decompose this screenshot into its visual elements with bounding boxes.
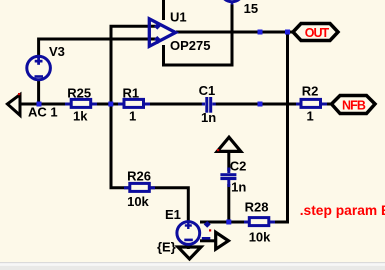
svg-text:R25: R25 [67, 86, 91, 101]
svg-text:E1: E1 [165, 207, 181, 222]
svg-text:10k: 10k [249, 230, 271, 245]
svg-text:R1: R1 [123, 86, 140, 101]
svg-text:1: 1 [129, 109, 136, 124]
svg-text:AC 1: AC 1 [28, 105, 58, 120]
svg-text:R2: R2 [302, 84, 319, 99]
svg-text:15: 15 [244, 1, 258, 16]
svg-text:OP275: OP275 [170, 38, 210, 53]
svg-text:1n: 1n [231, 180, 246, 195]
svg-text:C1: C1 [199, 83, 216, 98]
svg-text:NFB: NFB [342, 98, 366, 112]
svg-text:R26: R26 [127, 169, 151, 184]
svg-text:10k: 10k [127, 194, 149, 209]
svg-text:R28: R28 [245, 200, 269, 215]
svg-text:OUT: OUT [305, 26, 330, 40]
svg-text:U1: U1 [170, 10, 187, 25]
svg-text:1n: 1n [201, 110, 216, 125]
svg-text:C2: C2 [230, 159, 247, 174]
svg-text:.step param E: .step param E [300, 203, 385, 218]
svg-text:{E}: {E} [157, 240, 176, 255]
svg-text:V3: V3 [49, 44, 65, 59]
svg-text:1: 1 [307, 109, 314, 124]
svg-text:1k: 1k [73, 109, 88, 124]
